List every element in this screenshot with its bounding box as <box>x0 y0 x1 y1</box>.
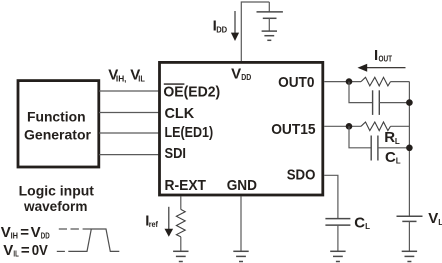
svg-text:IL: IL <box>138 74 145 83</box>
waveform VIL dash <box>57 250 65 252</box>
svg-text:IH: IH <box>11 232 19 241</box>
wire resistor to rail row2 <box>391 125 410 127</box>
label IOUT <box>374 47 392 64</box>
wire CLK <box>99 112 159 114</box>
svg-text:IL: IL <box>13 250 18 259</box>
svg-text:C: C <box>385 149 396 166</box>
IC box U1 <box>160 62 323 195</box>
svg-text:GND: GND <box>227 177 257 194</box>
wire OUT0 <box>324 81 361 83</box>
waveform VIH dashed level <box>59 228 91 230</box>
svg-text:V: V <box>231 65 241 82</box>
waveform trapezoid pulse <box>68 229 119 251</box>
wire LE <box>99 132 159 134</box>
label CL at SDO <box>354 214 370 231</box>
label IDD <box>213 18 228 35</box>
wire GND pin <box>240 196 242 251</box>
wire cap to rail row1 <box>379 102 409 104</box>
capacitor CL at SDO <box>325 219 350 226</box>
svg-text:OE(ED2): OE(ED2) <box>163 83 220 100</box>
svg-text:Function: Function <box>27 109 86 125</box>
node dot D <box>406 145 413 152</box>
capacitor CL row2 <box>371 136 378 161</box>
wire CL to ground <box>337 225 339 251</box>
wire resistor to ground <box>180 237 182 252</box>
wire battery to ground <box>268 18 270 31</box>
arrow IOUT <box>366 67 406 69</box>
label logic input waveform <box>19 182 95 213</box>
ground VL <box>402 251 417 261</box>
svg-text:V: V <box>428 210 438 227</box>
svg-text:waveform: waveform <box>23 198 87 214</box>
right rail <box>408 82 410 217</box>
svg-text:IH,: IH, <box>116 74 127 83</box>
wire VL to ground <box>408 221 410 251</box>
svg-text:OUT: OUT <box>379 54 393 63</box>
wire OE <box>99 90 159 92</box>
node dot A <box>346 78 353 85</box>
label VIL = 0V <box>3 242 48 259</box>
label Iref <box>145 213 158 230</box>
svg-text:V: V <box>31 224 41 241</box>
battery VDD stub <box>268 2 270 12</box>
svg-text:OUT15: OUT15 <box>271 121 315 138</box>
svg-text:0V: 0V <box>32 242 48 259</box>
ground R-EXT <box>173 251 188 261</box>
ground CL <box>330 251 345 261</box>
svg-text:CLK: CLK <box>165 105 195 122</box>
label VIH, VIL <box>108 67 145 84</box>
pin OE(ED2) label <box>163 83 220 100</box>
resistor row1 <box>361 77 391 86</box>
svg-text:R-EXT: R-EXT <box>165 177 207 194</box>
cap row1 branch <box>349 82 373 103</box>
battery VDD <box>257 12 283 18</box>
svg-text:OUT0: OUT0 <box>278 74 314 91</box>
svg-text:SDI: SDI <box>165 145 187 162</box>
wire SDO <box>324 175 338 218</box>
pin VDD label <box>231 65 251 82</box>
wire OUT15 <box>324 125 361 127</box>
svg-text:=: = <box>21 242 30 259</box>
svg-text:=: = <box>20 224 29 241</box>
svg-text:LE(ED1): LE(ED1) <box>165 124 214 141</box>
ground GND <box>233 251 248 261</box>
svg-text:L: L <box>395 137 400 146</box>
node dot B <box>406 99 413 106</box>
resistor RL row2 <box>361 122 391 131</box>
svg-text:L: L <box>365 222 370 231</box>
svg-text:L: L <box>396 157 401 166</box>
label RL <box>384 129 400 146</box>
wire SDI <box>99 154 159 156</box>
svg-text:V: V <box>3 242 13 259</box>
capacitor row1 <box>373 90 380 115</box>
svg-text:DD: DD <box>241 73 251 82</box>
svg-text:DD: DD <box>41 232 50 241</box>
wire resistor to rail <box>391 81 410 83</box>
svg-text:L: L <box>438 218 442 227</box>
svg-text:Generator: Generator <box>24 126 92 142</box>
ground top <box>262 31 277 40</box>
battery VL <box>397 216 423 221</box>
svg-text:V: V <box>1 224 11 241</box>
label CL row2 <box>385 149 401 166</box>
svg-text:Logic input: Logic input <box>19 182 95 198</box>
resistor R-EXT <box>176 209 185 236</box>
label VL <box>428 210 442 227</box>
svg-text:ref: ref <box>149 220 159 229</box>
svg-text:C: C <box>354 214 365 231</box>
svg-text:R: R <box>384 129 395 146</box>
wire cap to rail row2 <box>378 147 410 149</box>
svg-text:SDO: SDO <box>287 166 316 183</box>
cap row2 branch <box>349 126 371 148</box>
arrow Iref <box>168 207 170 229</box>
node dot C <box>346 123 353 130</box>
label VIH = VDD <box>1 224 50 241</box>
svg-text:DD: DD <box>216 25 227 34</box>
wire VDD vertical <box>241 2 269 61</box>
arrow IDD <box>234 11 236 33</box>
overline over OE <box>164 83 185 85</box>
wire R-EXT pin <box>180 196 182 209</box>
function generator box <box>18 81 99 167</box>
